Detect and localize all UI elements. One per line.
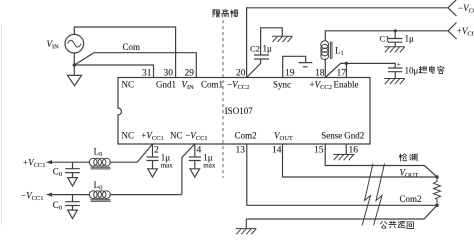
svg-text:18: 18 <box>315 69 325 79</box>
svg-text:L1: L1 <box>335 46 344 58</box>
svg-text:31: 31 <box>142 69 152 79</box>
svg-text:+VCC2: +VCC2 <box>457 26 474 38</box>
svg-text:VIN: VIN <box>47 39 60 51</box>
svg-text:Com: Com <box>123 42 141 52</box>
svg-text:+VCC2: +VCC2 <box>310 80 333 92</box>
svg-text:+VCC1: +VCC1 <box>141 131 164 143</box>
svg-text:L0: L0 <box>94 147 103 159</box>
svg-text:−VCC1: −VCC1 <box>21 191 44 203</box>
svg-text:C0: C0 <box>53 167 62 179</box>
svg-text:Com2: Com2 <box>400 194 422 204</box>
svg-text:C2: C2 <box>250 44 260 54</box>
svg-text:VOUT: VOUT <box>400 167 419 179</box>
svg-text:15: 15 <box>314 146 324 156</box>
svg-text:max: max <box>161 161 174 169</box>
svg-text:C0: C0 <box>53 200 62 212</box>
svg-text:20: 20 <box>236 69 246 79</box>
svg-text:+VCC1: +VCC1 <box>23 158 46 170</box>
svg-text:Com2: Com2 <box>235 131 257 141</box>
svg-text:NC: NC <box>122 131 135 141</box>
svg-text:16: 16 <box>349 146 359 156</box>
svg-text:ISO107: ISO107 <box>225 106 254 116</box>
svg-text:29: 29 <box>185 69 195 79</box>
svg-text:VIN: VIN <box>182 80 195 92</box>
svg-text:13: 13 <box>236 146 246 156</box>
svg-text:19: 19 <box>285 69 295 79</box>
svg-text:VOUT: VOUT <box>274 131 293 143</box>
svg-text:NC: NC <box>122 80 135 90</box>
svg-text:+: + <box>397 60 401 68</box>
svg-text:Sense: Sense <box>321 131 342 141</box>
svg-text:17: 17 <box>337 69 347 79</box>
svg-text:−VCC1: −VCC1 <box>185 131 208 143</box>
svg-text:14: 14 <box>272 146 282 156</box>
svg-text:4: 4 <box>197 146 202 156</box>
svg-text:Gnd1: Gnd1 <box>156 80 176 90</box>
svg-text:C1: C1 <box>380 34 390 44</box>
svg-text:−VCC2: −VCC2 <box>458 3 474 15</box>
svg-text:max: max <box>203 161 216 169</box>
svg-text:1μ: 1μ <box>405 34 415 44</box>
svg-text:Gnd2: Gnd2 <box>344 131 364 141</box>
svg-text:Com1: Com1 <box>201 80 223 90</box>
svg-text:NC: NC <box>170 131 183 141</box>
svg-text:30: 30 <box>164 69 174 79</box>
svg-text:10μ: 10μ <box>405 66 419 76</box>
svg-text:L0: L0 <box>94 180 103 192</box>
svg-text:Enable: Enable <box>334 80 359 90</box>
svg-text:−VCC2: −VCC2 <box>227 80 250 92</box>
svg-text:1μ: 1μ <box>263 44 273 54</box>
svg-text:Sync: Sync <box>273 80 291 90</box>
svg-text:2: 2 <box>154 146 159 156</box>
